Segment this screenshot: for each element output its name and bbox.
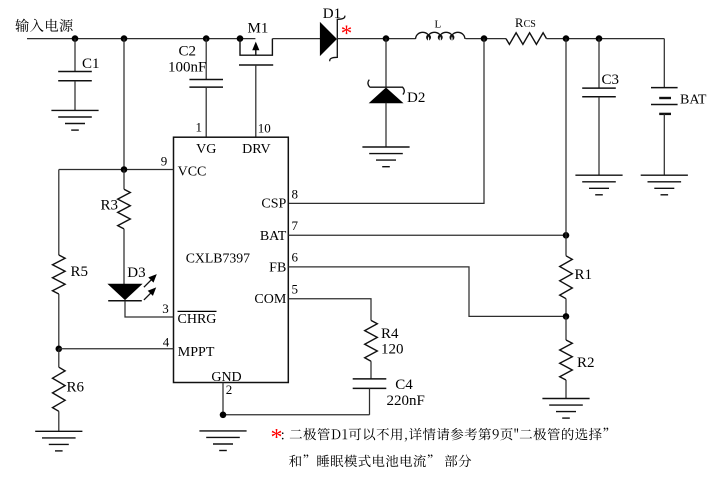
wire C4 to GND node — [223, 414, 370, 416]
resistor R1 — [560, 256, 573, 317]
svg-text:D2: D2 — [407, 90, 425, 106]
junction input/VCC — [121, 35, 128, 42]
svg-text:3: 3 — [162, 301, 169, 316]
svg-text:100nF: 100nF — [168, 60, 206, 76]
value 220nF (C4) — [387, 393, 425, 409]
U1 pin 3 name CHRG (active low) — [178, 311, 217, 326]
svg-text:2: 2 — [226, 382, 233, 397]
svg-text:FB: FB — [269, 260, 286, 275]
pin number 6 — [292, 250, 299, 265]
svg-text:C2: C2 — [179, 44, 197, 60]
junction R5/R6/MPPT — [56, 346, 63, 353]
wire M1 gate to DRV pin 10 — [255, 65, 257, 137]
svg-text:R6: R6 — [67, 379, 85, 395]
svg-text:M1: M1 — [248, 21, 269, 37]
svg-text:7: 7 — [292, 218, 299, 233]
ground (C1) — [51, 110, 98, 130]
pin number 5 — [292, 281, 299, 296]
U1 pin 9 name VCC — [178, 165, 207, 180]
label M1 — [248, 21, 269, 37]
pin number 4 — [163, 334, 170, 349]
U1 pin 8 name CSP — [261, 196, 286, 211]
svg-text:D3: D3 — [127, 265, 145, 281]
wire L to Rcs — [466, 38, 507, 40]
svg-text:120: 120 — [381, 341, 404, 357]
capacitor C3 — [582, 39, 616, 176]
wire battery rail down to R1 — [565, 39, 567, 256]
capacitor C2 — [189, 39, 223, 138]
label R3 — [101, 197, 119, 213]
transistor M1 (P-MOSFET) — [239, 39, 273, 65]
label C1 — [82, 56, 100, 72]
wire GND pin 2 — [222, 383, 224, 415]
svg-text:C3: C3 — [602, 72, 620, 88]
svg-text:MPPT: MPPT — [178, 345, 215, 360]
junction input/M1 source — [237, 35, 244, 42]
svg-text:BAT: BAT — [680, 93, 707, 108]
wire rail to battery — [663, 39, 665, 88]
svg-text:R2: R2 — [577, 355, 595, 371]
ground (D2) — [362, 147, 409, 167]
label CXLB7397 — [186, 251, 250, 266]
junction rail/BAT divider — [563, 35, 570, 42]
svg-text:5: 5 — [292, 281, 299, 296]
label D2 — [407, 90, 425, 106]
svg-text:D1: D1 — [323, 6, 341, 22]
U1 pin 1 name VG — [196, 142, 216, 157]
wire FB to divider (pin 6) — [288, 267, 566, 317]
net label 输入电源 (input power) — [15, 19, 72, 32]
junction switch node / D2 — [383, 35, 390, 42]
footnote line 2 — [289, 454, 471, 467]
pin number 10 — [258, 120, 271, 135]
ground (BAT) — [641, 175, 688, 195]
svg-text:C1: C1 — [82, 56, 100, 72]
capacitor C1 — [58, 39, 92, 111]
pin number 1 — [196, 120, 203, 135]
svg-text:DRV: DRV — [242, 142, 270, 157]
svg-text:R3: R3 — [101, 197, 119, 213]
svg-text:CS: CS — [524, 19, 536, 30]
resistor R3 — [118, 170, 131, 285]
ground (C3) — [575, 175, 622, 195]
diode D2 (Schottky) — [368, 39, 404, 147]
label BAT — [680, 93, 707, 108]
resistor R2 — [560, 316, 573, 398]
wire CSP sense line to pin 8 — [288, 39, 484, 204]
battery BAT — [651, 88, 678, 176]
junction input/C2 — [203, 35, 210, 42]
wire VCC net (pin 9) — [59, 169, 174, 171]
svg-text:9: 9 — [161, 154, 168, 169]
label Rcs — [515, 16, 536, 30]
wire COM to R4 (pin 5) — [288, 299, 371, 321]
svg-text:220nF: 220nF — [387, 393, 425, 409]
svg-text:VCC: VCC — [178, 165, 207, 180]
asterisk marker for D1 (red) — [341, 21, 353, 46]
resistor R4 — [365, 320, 378, 378]
svg-text:10: 10 — [258, 120, 271, 135]
junction rail/C3 — [596, 35, 603, 42]
label R5 — [71, 264, 89, 280]
value 120 (R4) — [381, 341, 404, 357]
pin number 2 — [226, 382, 233, 397]
pin number 9 — [161, 154, 168, 169]
svg-text:8: 8 — [292, 186, 299, 201]
pin number 3 — [162, 301, 169, 316]
label R1 — [575, 267, 593, 283]
label R6 — [67, 379, 85, 395]
label D1 — [323, 6, 341, 22]
label R4 — [381, 326, 399, 342]
label D3 — [127, 265, 145, 281]
footnote asterisk (red) — [271, 425, 283, 451]
wire M1 drain to D1 anode — [272, 38, 320, 40]
ground (U1 GND) — [199, 431, 246, 451]
wire input rail to M1 — [27, 38, 255, 40]
svg-text:COM: COM — [254, 292, 286, 307]
wire D1 cathode to inductor L — [337, 38, 415, 40]
svg-text:R5: R5 — [71, 264, 89, 280]
svg-text:*: * — [271, 425, 283, 451]
junction VCC/R3 — [121, 166, 128, 173]
junction BAT rail/R1 — [563, 232, 570, 239]
label L — [435, 18, 442, 30]
junction input/C1 — [72, 35, 79, 42]
label C4 — [395, 377, 413, 393]
diode D1 (Schottky) — [320, 16, 345, 62]
svg-text:VG: VG — [196, 142, 216, 157]
capacitor C4 — [353, 379, 387, 415]
LED D3 — [108, 274, 157, 301]
pin number 7 — [292, 218, 299, 233]
wire Rcs to battery rail — [547, 38, 665, 40]
svg-text:4: 4 — [163, 334, 170, 349]
svg-text:L: L — [435, 18, 442, 30]
footnote line 1 — [282, 428, 608, 442]
svg-text:R1: R1 — [575, 267, 593, 283]
junction switch node / CSP sense — [481, 35, 488, 42]
U1 pin 10 name DRV — [242, 142, 270, 157]
U1 pin 6 name FB — [269, 260, 286, 275]
U1 pin 7 name BAT — [260, 229, 287, 244]
U1 pin 2 name GND — [211, 370, 241, 385]
junction GND/C4 return — [220, 412, 227, 419]
svg-text:CSP: CSP — [261, 196, 286, 211]
svg-text:R4: R4 — [381, 326, 399, 342]
ground (R2) — [542, 399, 589, 419]
wire MPPT to pin 4 — [59, 348, 174, 350]
inductor L — [416, 32, 465, 39]
resistor R6 — [53, 349, 66, 432]
svg-text:C4: C4 — [395, 377, 413, 393]
op-amp U1 CXLB7397 body — [174, 137, 289, 382]
wire BAT sense to pin 7 — [288, 234, 566, 236]
svg-text:*: * — [341, 21, 353, 46]
resistor Rcs — [506, 33, 547, 45]
wire D3 cathode to CHRG pin 3 — [125, 301, 174, 317]
label C2 — [179, 44, 197, 60]
svg-text:CHRG: CHRG — [178, 312, 217, 327]
svg-text:6: 6 — [292, 250, 299, 265]
U1 pin 4 name MPPT — [178, 345, 215, 360]
value 100nF (C2) — [168, 60, 206, 76]
junction R1/R2/FB — [563, 313, 570, 320]
pin number 8 — [292, 186, 299, 201]
svg-text:1: 1 — [196, 120, 203, 135]
wire rail to VCC node — [123, 39, 125, 170]
svg-text:CXLB7397: CXLB7397 — [186, 251, 250, 266]
label R2 — [577, 355, 595, 371]
resistor R5 — [53, 170, 66, 349]
label C3 — [602, 72, 620, 88]
U1 pin 5 name COM — [254, 292, 286, 307]
ground (R6) — [35, 431, 82, 451]
svg-text:BAT: BAT — [260, 229, 287, 244]
